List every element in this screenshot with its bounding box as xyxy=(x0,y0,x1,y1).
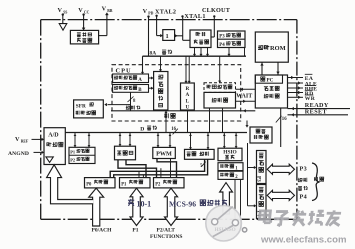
pin CLKOUT wire xyxy=(213,15,215,17)
svg-text:P3: P3 xyxy=(256,176,262,182)
wire into P4 latch xyxy=(248,205,256,207)
pin VREF wire xyxy=(32,138,43,140)
svg-text:CLKOUT: CLKOUT xyxy=(202,7,231,14)
wires clock generator to A-bus xyxy=(194,48,196,56)
bus width tick 16 xyxy=(276,116,282,123)
address line arrowhead xyxy=(244,109,246,112)
svg-text:P3: P3 xyxy=(300,165,307,172)
pin XTAL1 wire xyxy=(181,15,183,17)
wire D-bus to interrupt controller right xyxy=(207,133,209,149)
svg-text:U: U xyxy=(186,105,190,111)
signal ALE wire xyxy=(288,82,304,84)
wire D-bus to serial port right xyxy=(129,133,131,146)
svg-text:WAIT: WAIT xyxy=(236,93,252,99)
wire memory controller data bus 16 xyxy=(280,108,282,147)
D bus horizontal line xyxy=(65,132,247,134)
wire WAIT to CPU xyxy=(236,88,256,90)
bus width tick 5 xyxy=(201,162,206,167)
P4 bidirectional hollow arrow xyxy=(267,190,294,200)
svg-text:V: V xyxy=(143,8,148,15)
block instruction register 指令寄存器 dashed xyxy=(204,83,236,93)
frame right border xyxy=(296,20,298,220)
svg-text:HSIO: HSIO xyxy=(223,150,236,156)
pin VSS stem xyxy=(62,13,64,15)
svg-text:L: L xyxy=(186,98,190,104)
wire stub to P2 buffer b xyxy=(170,159,172,178)
block timer1 定时器1 xyxy=(218,163,243,171)
address line 地址线 label xyxy=(126,106,130,110)
block watchdog timer 监视定时器 xyxy=(250,127,272,143)
svg-text:HSI HSO: HSI HSO xyxy=(215,227,236,233)
svg-text:XTAL1: XTAL1 xyxy=(184,13,205,20)
hollow arrow HSIO timer input xyxy=(220,183,233,214)
wire stub to P2 buffer a xyxy=(160,168,162,177)
wire D-bus to PWM right xyxy=(169,133,171,147)
block P1 P2 registers 寄存器 xyxy=(69,147,95,163)
block on-chip ROM 片内ROM xyxy=(255,32,288,62)
wire register stub xyxy=(244,48,246,57)
wire bus to register array xyxy=(160,56,162,70)
svg-text:V: V xyxy=(102,6,107,13)
P3 bidirectional hollow arrow xyxy=(267,164,294,174)
svg-text:P1: P1 xyxy=(132,228,138,234)
svg-text:1: 1 xyxy=(165,33,168,40)
pin ANGND wire xyxy=(34,151,43,153)
signal WR wire xyxy=(288,96,304,98)
bus width tick 8 xyxy=(128,97,134,103)
address line horizontal xyxy=(111,110,255,112)
block timer2 定时器2 xyxy=(218,171,243,179)
wire D-bus to interrupt controller left xyxy=(190,133,192,149)
wire CPU to memory controller xyxy=(236,100,256,102)
wire D-bus to P1P2 registers left xyxy=(74,133,76,147)
block A/D converter A/D转换器 xyxy=(44,128,65,165)
wire long alt-function line upper xyxy=(110,159,204,177)
wire to SFR decoder with arrow xyxy=(108,104,131,106)
block address register A 地址寄存器A xyxy=(113,74,149,83)
block controller 控制器 xyxy=(204,92,236,108)
wire register B to array xyxy=(149,87,153,89)
svg-text:PC: PC xyxy=(267,78,274,84)
CPU dashed boundary xyxy=(112,65,241,121)
block P0 buffer P0缓冲器 xyxy=(85,178,116,188)
wires bus to RALU xyxy=(185,56,187,82)
svg-text:ANGND: ANGND xyxy=(8,151,29,157)
block P4 port latch vertical 锁存器P4 xyxy=(257,185,267,219)
signal EA wire xyxy=(288,77,304,79)
svg-text:www.elecfans.com: www.elecfans.com xyxy=(260,234,347,245)
frame top border xyxy=(41,19,297,21)
block P3 port latch vertical 锁存器P3 xyxy=(257,151,267,184)
wire bus to address register A xyxy=(142,56,144,73)
signal RD wire xyxy=(288,92,304,94)
block P2 buffer P2缓冲器 xyxy=(154,178,185,188)
block P3 P4 registers 寄存器 xyxy=(218,31,246,48)
block slave PC 从PC xyxy=(255,75,282,83)
svg-text:A: A xyxy=(186,92,190,98)
data label 数据 xyxy=(164,113,168,118)
wire serial port to P2 buffer xyxy=(118,160,157,178)
oscillator divider box 1 xyxy=(163,30,175,41)
svg-text:PD: PD xyxy=(148,11,153,15)
block serial port 串行口 xyxy=(115,146,136,160)
label 地址 xyxy=(298,178,302,182)
svg-text:P2/ALT: P2/ALT xyxy=(157,228,176,234)
svg-text:ROM: ROM xyxy=(270,45,286,52)
wire D-bus to HSIO right xyxy=(235,133,237,148)
svg-text:P4: P4 xyxy=(219,43,225,48)
frame bottom border xyxy=(41,218,297,220)
svg-text:PWM: PWM xyxy=(156,151,172,158)
wire into P3 latch xyxy=(248,167,256,169)
wire register A to array xyxy=(149,77,153,79)
svg-text:R: R xyxy=(186,86,190,92)
wire divider output to XTAL1 node xyxy=(175,34,177,37)
wire ROM data down-arrow xyxy=(277,62,279,75)
block register array 寄存器阵列 vertical xyxy=(154,72,168,111)
hollow arrow A/D analog input with elbow channel from P0 xyxy=(47,165,94,204)
block PWM xyxy=(153,147,176,158)
svg-text:P1: P1 xyxy=(121,182,127,187)
svg-text:V: V xyxy=(78,7,83,14)
svg-text:A: A xyxy=(138,78,142,83)
svg-text:CPU: CPU xyxy=(116,67,132,74)
wire latch feed vertical xyxy=(247,143,249,206)
wire ROM address up-arrow xyxy=(261,62,263,75)
wire stub to P1 buffer b xyxy=(142,175,144,178)
svg-text:D: D xyxy=(140,126,144,132)
svg-text:XTAL2: XTAL2 xyxy=(155,9,176,16)
wire PWM to P2 buffer xyxy=(157,159,177,178)
block HSIO unit HSIO部件 xyxy=(218,148,242,161)
wire address register B down to address line xyxy=(130,92,132,111)
label 数据 xyxy=(314,177,317,181)
block RALU vertical xyxy=(181,83,195,110)
hollow arrow into P0 buffer xyxy=(89,188,104,226)
pin VCC stem wire xyxy=(82,13,84,15)
block clock generator 时钟发生器 xyxy=(190,30,211,48)
svg-text:MCS-96: MCS-96 xyxy=(169,199,196,208)
svg-text:P0: P0 xyxy=(86,182,92,187)
A/D analog symbol triangle xyxy=(46,157,53,163)
svg-text:V: V xyxy=(15,136,20,143)
wire D-bus to PWM left xyxy=(157,133,159,147)
svg-text:P3: P3 xyxy=(219,35,225,40)
wire RALU to D-bus xyxy=(187,110,189,133)
hollow arrow P1 bidirectional xyxy=(130,188,143,225)
wire D-bus to serial port left xyxy=(119,133,121,146)
svg-text:P2: P2 xyxy=(155,182,161,187)
block address register B 地址寄存器B xyxy=(113,85,149,93)
bus 8A horizontal line xyxy=(143,55,247,57)
wire stub to P1 buffer a xyxy=(138,171,140,177)
wire D-bus to HSIO left xyxy=(223,133,225,148)
signal RESET wire xyxy=(288,114,349,116)
block P1 buffer P1缓冲器 xyxy=(120,178,151,188)
svg-text:P2: P2 xyxy=(70,158,75,163)
frame left border xyxy=(40,20,42,220)
svg-text:16: 16 xyxy=(282,117,287,122)
wire to watchdog timer xyxy=(246,121,248,127)
block memory controller 存储器控制器 with slave PC xyxy=(255,75,287,108)
wires controller to D-bus xyxy=(209,108,211,133)
svg-text:A/D: A/D xyxy=(48,132,59,138)
wire P4 register to A-bus xyxy=(228,48,230,56)
svg-text:P4: P4 xyxy=(300,193,307,200)
block bias voltage generator 反偏压发生器 xyxy=(70,30,98,44)
hollow arrow P2 bidirectional xyxy=(165,188,178,225)
wire register array to D-bus xyxy=(165,110,167,133)
svg-text:FUNCTIONS: FUNCTIONS xyxy=(150,234,182,240)
wire serial port to P1 buffer xyxy=(126,160,146,178)
svg-text:SFR: SFR xyxy=(76,103,86,109)
svg-text:BB: BB xyxy=(107,9,113,13)
watermark text 电子发烧友 xyxy=(259,210,342,226)
label 总线 xyxy=(298,186,302,190)
signal BHE wire xyxy=(288,87,304,89)
svg-text:CC: CC xyxy=(84,11,90,15)
address data bus brace xyxy=(312,163,320,201)
svg-text:REF: REF xyxy=(21,140,29,144)
wire HSIO pin line a xyxy=(240,179,242,229)
pin VPD stem wire xyxy=(147,15,149,17)
block interrupt controller 中断控制 xyxy=(185,149,215,159)
signal READY wire xyxy=(288,108,351,110)
D bus width tick xyxy=(173,129,178,135)
svg-text:P0/ACH: P0/ACH xyxy=(92,228,113,234)
svg-text:V: V xyxy=(58,7,63,14)
wire D-bus to P1P2 registers right xyxy=(88,133,90,147)
block SFR address decoder SFR地址译码器 xyxy=(74,100,104,118)
svg-text:WR: WR xyxy=(305,96,316,102)
wire bus to instruction register xyxy=(219,56,221,81)
svg-text:P1: P1 xyxy=(70,150,75,155)
svg-text:10-1: 10-1 xyxy=(137,199,152,208)
pin XTAL2 wire xyxy=(155,15,157,17)
ground symbol under VSS xyxy=(59,24,67,31)
wire long alt-function line lower xyxy=(114,159,208,177)
caption 图10-1 xyxy=(128,199,134,206)
wire HSIO pin line b xyxy=(234,179,236,219)
watermark logo circle xyxy=(206,205,242,241)
pin VBB wire from bias generator xyxy=(106,13,108,35)
